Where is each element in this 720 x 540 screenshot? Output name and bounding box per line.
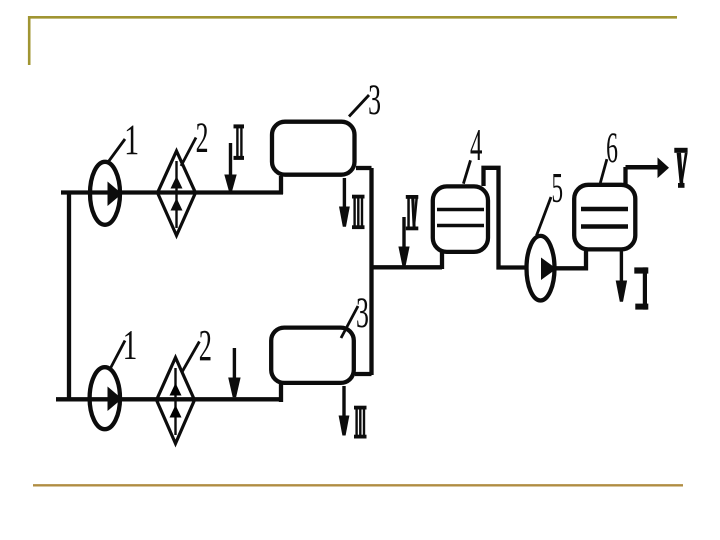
vessel 4 tray line lower: [437, 224, 484, 228]
pipe: pump 5 discharge to vessel 6: [554, 250, 586, 268]
svg-text:1: 1: [124, 117, 139, 165]
svg-text:2: 2: [196, 113, 209, 162]
stream III (top) arrow head: [339, 207, 350, 227]
filter 2 (top) inner up-arrow upper: [171, 176, 183, 189]
pipe: top vessel 3 outlet: [356, 166, 372, 170]
stream IV arrow shaft: [402, 217, 405, 249]
label IV (roman numeral): [406, 195, 419, 230]
pipe: bottom vessel 3 outlet: [355, 372, 372, 376]
vessel 4 tray line upper: [437, 208, 484, 212]
callout slash for label 3 (top): [349, 95, 369, 117]
vessel 3 (bottom): [271, 328, 354, 383]
stream II arrow head: [224, 175, 236, 191]
callout slash for label 2 (bottom): [182, 342, 199, 373]
stream V arrow head: [658, 157, 670, 178]
pump 1 (top) body: [90, 162, 120, 225]
filter 2 (bottom) inner up-arrow upper: [170, 383, 182, 396]
filter 2 (bottom) inner stem: [174, 368, 176, 435]
pipe: vessel 6 overhead riser: [623, 167, 627, 185]
pipe: right downcomer junction line: [369, 168, 373, 375]
label V (roman numeral): [674, 148, 687, 188]
vessel 6 tray line lower: [581, 224, 628, 228]
callout slash for label 1 (top): [109, 139, 126, 162]
pipe: bottom suction line: [56, 397, 283, 401]
vessel 4: [433, 186, 488, 252]
svg-text:2: 2: [199, 321, 212, 370]
svg-text:3: 3: [356, 288, 369, 337]
stream arrow (bottom feed) head: [228, 378, 240, 398]
pump 1 (top) impeller triangle: [108, 182, 123, 207]
pump 1 (bottom) impeller triangle: [108, 387, 123, 412]
filter 2 (top) inner up-arrow lower: [171, 198, 183, 211]
stream III (bottom) arrow shaft: [342, 386, 345, 418]
pipe: top riser into vessel 3: [279, 176, 283, 194]
svg-text:4: 4: [470, 120, 482, 170]
filter 2 (top) diamond: [158, 151, 196, 236]
vessel 6 tray line upper: [581, 207, 628, 211]
stream V arrow shaft: [626, 165, 660, 170]
pipe: vessel 4 overhead line to pump 5: [484, 168, 528, 268]
filter 2 (bottom) diamond: [157, 358, 195, 444]
label III (bottom, roman numeral): [354, 406, 367, 439]
pump 1 (bottom) body: [90, 367, 120, 429]
callout slash for label 3 (bottom): [341, 306, 358, 338]
callout slash for label 5: [537, 197, 552, 236]
pump 5 body: [527, 236, 555, 301]
pipe: left manifold vertical: [67, 192, 71, 400]
stream I arrow head: [616, 281, 627, 302]
vessel 3 (top): [272, 122, 355, 175]
label I (roman numeral): [634, 267, 648, 309]
pipe: top suction line: [61, 190, 283, 194]
slide frame left stub: [28, 16, 31, 65]
stream III (bottom) arrow head: [339, 416, 350, 436]
pipe: bottom riser into vessel 3: [279, 384, 283, 402]
stream III (top) arrow shaft: [343, 178, 346, 209]
svg-text:5: 5: [552, 166, 564, 212]
slide frame bottom line: [33, 484, 683, 486]
svg-text:6: 6: [606, 124, 618, 172]
vessel 6: [574, 185, 635, 250]
stream I arrow shaft: [620, 251, 623, 283]
label III (top, roman numeral): [352, 195, 365, 229]
pipe: vessel 4 inlet riser: [440, 252, 444, 269]
pump 5 impeller triangle: [541, 258, 557, 281]
callout slash for label 4: [463, 160, 470, 183]
slide frame top line: [29, 16, 677, 19]
label II (roman numeral): [234, 124, 245, 159]
svg-text:1: 1: [123, 322, 138, 368]
callout slash for label 1 (bottom): [110, 341, 126, 371]
filter 2 (bottom) inner up-arrow lower: [170, 405, 182, 418]
svg-text:3: 3: [368, 75, 381, 124]
callout slash for label 2 (top): [181, 138, 196, 167]
filter 2 (top) inner stem: [175, 161, 177, 228]
stream IV arrow head: [398, 247, 409, 266]
stream arrow (bottom feed) shaft: [233, 348, 236, 380]
pipe: junction to vessel 4: [370, 265, 443, 269]
stream II arrow shaft: [229, 143, 232, 177]
callout slash for label 6: [600, 159, 607, 183]
